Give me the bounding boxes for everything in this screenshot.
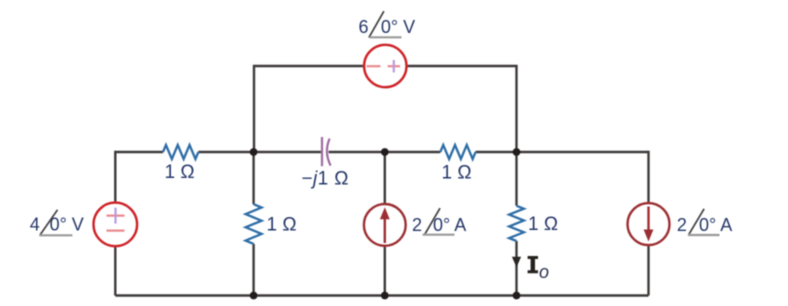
svg-text:4: 4 (30, 215, 40, 235)
svg-text:6: 6 (359, 17, 369, 37)
svg-text:0° A: 0° A (699, 215, 732, 235)
svg-text:1 Ω: 1 Ω (267, 215, 297, 236)
svg-text:0° A: 0° A (433, 215, 466, 235)
svg-text:0° V: 0° V (50, 215, 84, 235)
svg-text:0° V: 0° V (381, 17, 415, 37)
svg-text:1 Ω: 1 Ω (442, 162, 472, 183)
svg-text:−j1 Ω: −j1 Ω (302, 169, 349, 190)
svg-text:2: 2 (412, 215, 422, 235)
svg-text:1 Ω: 1 Ω (165, 162, 195, 183)
svg-text:1 Ω: 1 Ω (528, 214, 558, 235)
svg-text:o: o (539, 262, 549, 282)
svg-text:2: 2 (677, 215, 687, 235)
